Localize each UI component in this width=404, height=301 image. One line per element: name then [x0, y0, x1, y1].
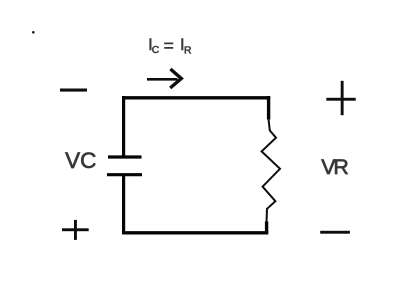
svg-text:VC: VC [65, 148, 96, 173]
svg-text:VR: VR [321, 155, 348, 179]
wire bottom [122, 231, 268, 234]
svg-text:=: = [164, 36, 174, 56]
stray dot [32, 31, 35, 34]
svg-text:R: R [184, 46, 192, 57]
wire left upper [122, 96, 125, 156]
svg-text:C: C [152, 45, 160, 56]
minus sign bottom-right [320, 231, 350, 234]
capacitor C bottom plate [107, 173, 142, 176]
current arrow [147, 69, 181, 88]
wire right lower [265, 222, 268, 235]
resistor R zigzag [262, 119, 280, 223]
wire left lower [122, 176, 125, 232]
wire right upper [267, 96, 270, 120]
plus sign bottom-left [62, 220, 89, 240]
plus sign top-right [326, 81, 355, 115]
label IC = IR [148, 36, 192, 57]
minus sign top-left [60, 89, 87, 92]
capacitor C top plate [108, 155, 142, 158]
wire top [122, 96, 270, 99]
